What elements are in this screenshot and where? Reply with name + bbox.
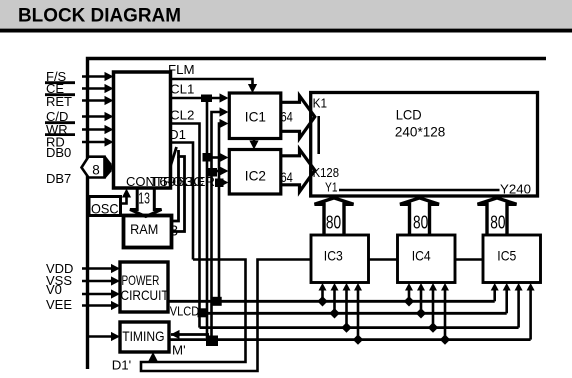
svg-text:8: 8 [170,224,178,240]
svg-text:80: 80 [490,211,505,232]
svg-text:CIRCUIT: CIRCUIT [121,287,170,303]
svg-text:LCD: LCD [396,106,422,122]
svg-text:64: 64 [281,170,294,185]
svg-text:V0: V0 [46,282,62,297]
svg-text:IC4: IC4 [412,248,431,264]
svg-text:CL2: CL2 [170,108,194,123]
svg-text:TIMING: TIMING [122,328,164,344]
svg-text:BLOCK DIAGRAM: BLOCK DIAGRAM [18,6,181,27]
svg-text:OSC: OSC [91,200,119,216]
svg-text:80: 80 [326,211,341,232]
svg-text:IC5: IC5 [497,248,516,264]
svg-text:IC3: IC3 [324,248,343,264]
svg-text:240*128: 240*128 [395,124,446,140]
svg-text:K128: K128 [313,165,339,180]
svg-text:80: 80 [413,211,428,232]
svg-text:POWER: POWER [122,272,160,288]
svg-text:D1': D1' [112,357,132,372]
svg-text:Y240: Y240 [500,181,531,196]
svg-text:DB7: DB7 [46,171,71,186]
svg-text:Y1: Y1 [325,180,338,195]
svg-text:CL1: CL1 [170,82,194,97]
svg-text:T6963C: T6963C [150,174,204,189]
svg-text:VLCD: VLCD [170,304,199,319]
svg-text:RET: RET [46,94,72,109]
svg-text:RAM: RAM [130,221,158,237]
svg-text:IC1: IC1 [245,109,266,125]
svg-text:VEE: VEE [46,297,72,312]
svg-text:DB0: DB0 [46,145,71,160]
svg-text:8: 8 [92,162,100,177]
svg-text:13: 13 [138,191,150,208]
svg-text:FLM: FLM [168,62,195,77]
svg-text:64: 64 [281,109,294,124]
svg-text:K1: K1 [313,96,327,111]
svg-text:M': M' [172,343,186,358]
svg-text:IC2: IC2 [245,168,266,184]
svg-text:D1: D1 [169,127,186,142]
